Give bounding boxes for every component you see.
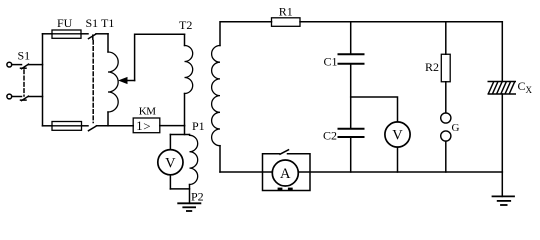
switch S1 pole 1 blade [22, 64, 29, 69]
wire wiper riser [135, 34, 185, 80]
svg-text:G: G [452, 122, 460, 134]
wire R2 drop [445, 22, 447, 54]
svg-text:C2: C2 [323, 129, 337, 143]
transformer T2 secondary winding [212, 46, 220, 146]
switch S1b bottom blade [89, 126, 97, 131]
svg-text:P2: P2 [191, 190, 204, 204]
variac T1 winding [108, 52, 118, 112]
wire [397, 147, 399, 172]
wire bottom bus [220, 171, 502, 173]
transformer T2 secondary top lead [220, 22, 272, 46]
fuse FU bottom body [52, 122, 82, 131]
fuse FU bottom through wire [52, 125, 82, 127]
wire [29, 64, 43, 66]
svg-text:S1: S1 [86, 16, 99, 30]
svg-text:A: A [280, 166, 291, 182]
relay KM box [133, 118, 160, 133]
wire [82, 125, 89, 127]
svg-text:S1: S1 [18, 49, 31, 63]
wire [169, 175, 171, 189]
wire [170, 188, 189, 190]
winding P1 coil [190, 135, 198, 185]
wire [12, 64, 22, 66]
svg-text:1: 1 [136, 119, 142, 133]
switch S1 pole 1 linkage tick [21, 67, 27, 69]
sphere gap G ball 2 [441, 131, 451, 141]
svg-text:P1: P1 [192, 119, 205, 133]
switch S1b top blade [89, 34, 97, 39]
wire to voltmeter [169, 135, 171, 150]
wire [12, 96, 22, 98]
ammeter A circle [272, 160, 298, 186]
switch S1 pole 2 blade [22, 96, 29, 101]
wire [96, 33, 108, 35]
test object CX hatched box [488, 82, 517, 95]
wire [97, 125, 134, 127]
variac T1 bottom lead [107, 112, 109, 126]
svg-text:KM: KM [139, 106, 156, 118]
capacitor C2 [339, 129, 364, 137]
wire [29, 96, 43, 98]
wire [160, 125, 185, 127]
svg-text:V: V [392, 128, 403, 144]
transformer T2 secondary bottom lead [219, 146, 221, 172]
node junction to P1 winding [184, 126, 186, 135]
svg-text:R1: R1 [279, 4, 293, 18]
wire bar [170, 134, 189, 136]
sphere gap G ball 1 [441, 113, 451, 123]
switch S1 pole 2 linkage tick [21, 99, 27, 101]
switch S1 pole 1 terminal circle [7, 62, 12, 67]
wire right drop to CX [501, 22, 503, 82]
svg-text:T1: T1 [101, 16, 114, 30]
ammeter A gap contact dots [278, 188, 293, 191]
switch S1b linkage dashed [92, 41, 94, 123]
svg-text:T2: T2 [179, 18, 192, 32]
wire ground stem [501, 172, 503, 196]
ammeter A bypass blade [280, 150, 289, 154]
wire jog to voltmeter V2 [351, 97, 398, 122]
svg-text:R2: R2 [425, 60, 439, 74]
resistor R2 body [441, 54, 450, 82]
wire C1 drop [350, 22, 352, 54]
wire [501, 94, 503, 172]
wire [350, 137, 352, 172]
variac T1 wiper arrow head [120, 78, 128, 84]
wire [445, 82, 447, 113]
voltmeter V2 circle [385, 122, 410, 147]
voltmeter P winding circle [158, 150, 183, 175]
variac T1 wiper wire [127, 80, 135, 82]
ground right [493, 196, 515, 205]
wire [189, 185, 191, 204]
ammeter A box [263, 154, 311, 191]
transformer T2 primary bottom lead [184, 94, 186, 126]
wire [81, 33, 88, 35]
wire [43, 33, 53, 35]
fuse FU top through wire [52, 33, 81, 35]
wire [445, 141, 447, 172]
wire [350, 64, 352, 129]
svg-text:V: V [165, 155, 176, 171]
fuse FU top body [52, 30, 81, 38]
ground P2 [178, 203, 200, 211]
transformer T2 primary winding [185, 46, 193, 94]
svg-text:>: > [143, 118, 150, 133]
resistor R1 body [272, 18, 301, 27]
svg-text:C1: C1 [324, 55, 338, 69]
variac T1 top lead [107, 34, 109, 52]
fuse FU bottom wire [43, 125, 53, 127]
svg-text:FU: FU [57, 16, 73, 30]
switch S1b top tick [92, 35, 94, 39]
wire top bus [300, 21, 502, 23]
transformer T2 primary top lead [184, 34, 186, 45]
switch S1 linkage dashed [23, 70, 25, 96]
wire left bus [42, 34, 44, 126]
switch S1 pole 2 terminal circle [7, 94, 12, 99]
capacitor C1 [339, 54, 364, 64]
